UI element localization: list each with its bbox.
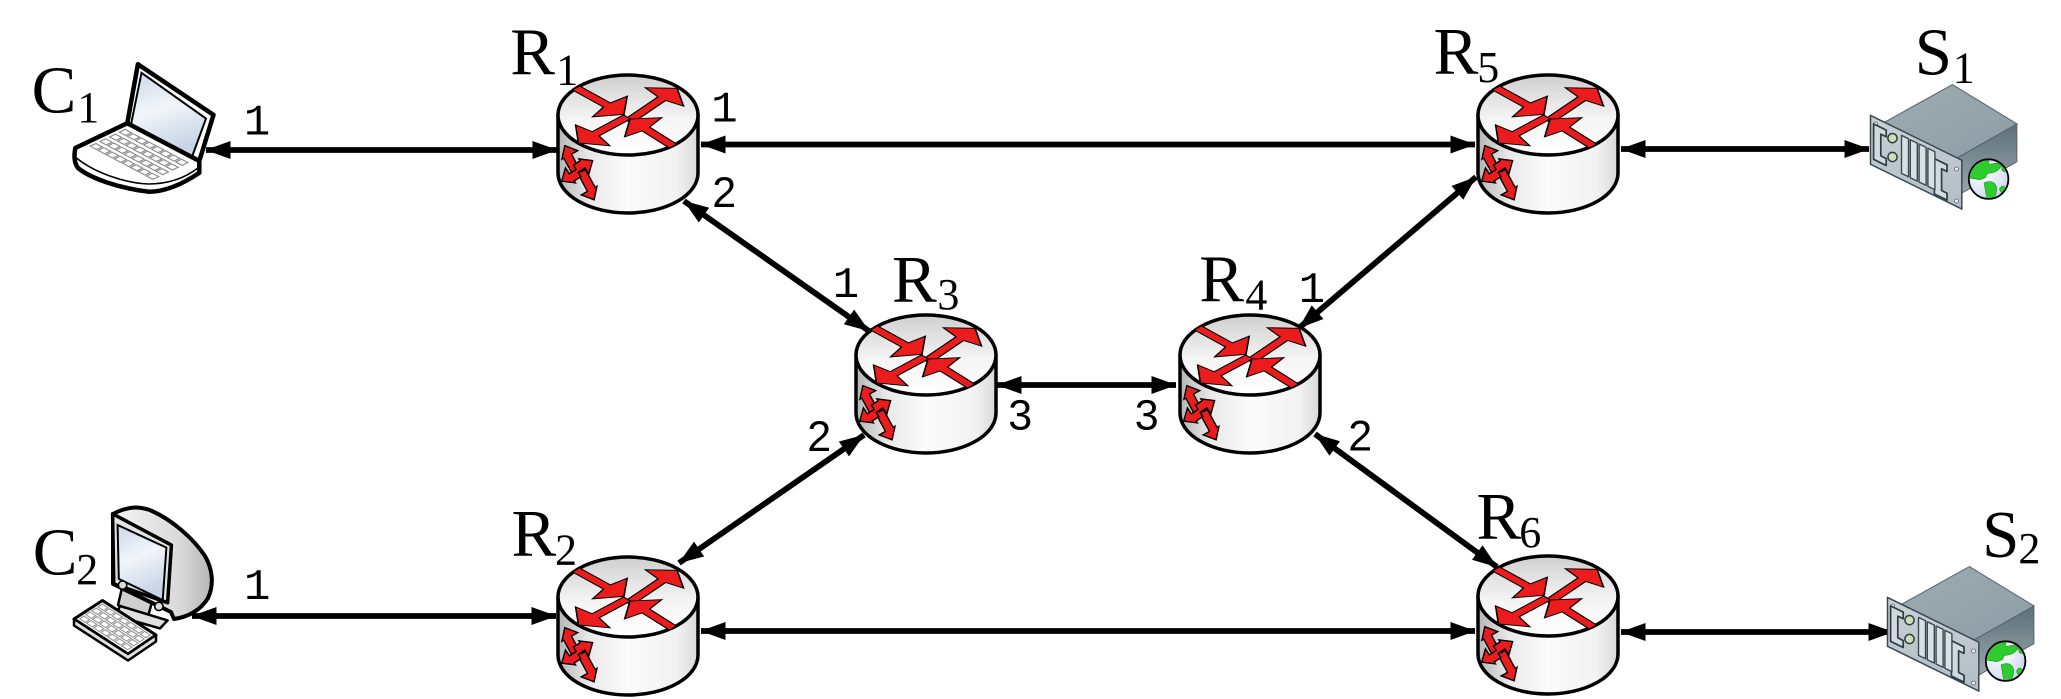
svg-text:3: 3 <box>1135 391 1159 439</box>
svg-text:1: 1 <box>711 86 737 136</box>
svg-text:1: 1 <box>244 563 270 613</box>
svg-text:1: 1 <box>833 261 859 311</box>
svg-text:2: 2 <box>807 413 831 461</box>
svg-text:1: 1 <box>1299 266 1325 316</box>
svg-text:R: R <box>1434 14 1479 88</box>
svg-text:2: 2 <box>712 169 736 217</box>
svg-text:2: 2 <box>76 545 98 594</box>
svg-text:4: 4 <box>1245 271 1267 320</box>
svg-text:R: R <box>1199 242 1244 316</box>
svg-text:R: R <box>1477 479 1522 553</box>
svg-text:6: 6 <box>1519 508 1541 557</box>
svg-text:R: R <box>892 243 937 317</box>
svg-text:1: 1 <box>1953 44 1975 93</box>
svg-text:3: 3 <box>1008 391 1032 439</box>
svg-text:C: C <box>32 54 77 128</box>
svg-text:R: R <box>512 497 557 571</box>
svg-text:R: R <box>510 15 555 89</box>
svg-text:3: 3 <box>937 270 959 319</box>
svg-text:1: 1 <box>556 46 578 95</box>
svg-text:2: 2 <box>2018 524 2040 573</box>
svg-text:5: 5 <box>1477 43 1499 92</box>
svg-text:2: 2 <box>1348 412 1372 460</box>
svg-text:1: 1 <box>77 83 99 132</box>
svg-text:1: 1 <box>244 99 270 149</box>
svg-text:2: 2 <box>555 526 577 575</box>
svg-text:C: C <box>33 515 78 589</box>
svg-text:S: S <box>1982 498 2019 572</box>
svg-text:S: S <box>1915 16 1952 90</box>
